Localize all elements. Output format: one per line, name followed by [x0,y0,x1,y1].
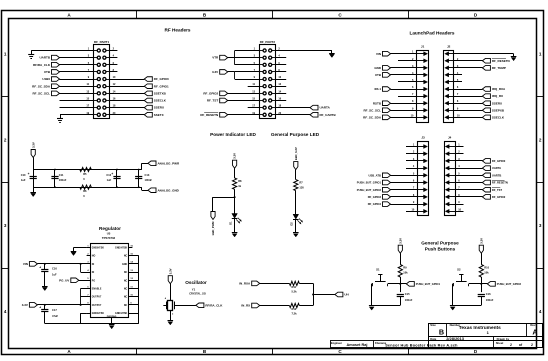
svg-text:Texas Instruments: Texas Instruments [459,325,501,331]
svg-text:IRQ_RX: IRQ_RX [492,94,503,98]
wire J3 pin 6 [391,182,418,184]
svg-text:2: 2 [531,343,533,347]
pin U5 left PG [87,280,91,282]
svg-text:SSERX: SSERX [154,106,164,110]
wire PG_UV to U5 [79,280,91,282]
wire bottom rail S1 [372,305,401,307]
svg-text:General Purpose LED: General Purpose LED [271,132,320,137]
svg-text:3: 3 [4,223,7,228]
wire LED to ground [234,219,236,233]
pin U5 right NC [128,288,138,290]
svg-text:3.3V: 3.3V [212,70,218,74]
net flag RF_TST [482,187,490,192]
wire bottom rail S2 [453,305,482,307]
net flag VIN [383,51,391,56]
wire 3.3V to R10 [481,253,483,264]
net flag RF/RA_CLK [52,62,60,67]
pin U5 left ENABLE [87,288,91,290]
wire J2 pin 1 to ground [454,53,514,55]
wire LED to ground [295,220,297,233]
svg-text:100nF: 100nF [59,178,67,182]
title block engineer row [331,341,544,348]
svg-text:RF_PART2: RF_PART2 [260,40,276,44]
wire J4 pin 4 [455,168,482,170]
net flag PUSH_BUT_GPIO1 [400,283,406,285]
net flag VIN [29,262,37,267]
LED D2 [293,214,299,219]
net flag 3.3V [220,70,228,75]
wire J3 pin 5 [391,175,418,177]
net flag PG_UV [71,278,79,283]
net flag RF_TST [220,98,228,103]
svg-text:LED_3.3V: LED_3.3V [294,147,298,160]
svg-text:PUSH_BUT_GPIO2: PUSH_BUT_GPIO2 [357,188,382,192]
svg-text:ANALOG_PWR: ANALOG_PWR [158,161,181,165]
wire J1 pin 4 [391,74,417,76]
svg-text:GND/HTSK: GND/HTSK [115,313,127,315]
wire J1 pin 5 [398,81,417,83]
svg-text:OUTPUT: OUTPUT [92,297,102,299]
wire to ANALOG_PWR [141,163,143,169]
wire RF_PART1 pin 5 [60,64,94,66]
wire J3 pin 3 [406,160,418,162]
wire RF_PART1 pin 14 [109,93,144,95]
wire VIN to U5 IN pins [37,263,90,265]
ground (D1) [232,232,238,234]
wire RF_PART2 pin 8 [275,71,286,73]
wire J1 pin 8 [391,103,417,105]
svg-text:10k: 10k [484,271,489,275]
svg-text:RSTB: RSTB [373,101,382,105]
svg-text:RF/RA_CLK: RF/RA_CLK [205,303,223,307]
wire J3 pin 8 [391,196,418,198]
svg-text:+: + [39,266,41,270]
ground (RF_PART2 pin 2) [331,51,333,54]
net flag UARTA [482,166,490,171]
svg-text:Y1: Y1 [192,288,196,292]
wire RF_PART1 pin 6 [109,64,117,66]
wire RF_PART2 pin 18 [275,107,310,109]
svg-text:1: 1 [4,52,7,57]
wire J2 pin 8 [454,103,483,105]
net flag UH [335,292,343,297]
svg-text:NC: NC [124,272,128,274]
svg-text:USB_ATB: USB_ATB [369,173,382,177]
net flag IN_RXA [252,281,260,286]
svg-text:NC: NC [124,297,128,299]
svg-text:2: 2 [510,343,512,347]
svg-text:R6: R6 [83,189,87,193]
wire ground loop under U5 [45,323,139,325]
net flag IRL1 [383,87,391,92]
net flag RF_GPIO4 [383,202,391,207]
svg-text:IRL1: IRL1 [374,87,381,91]
svg-text:NC: NC [124,289,128,291]
svg-text:GND: GND [374,66,382,70]
net flag UTB [52,70,60,75]
svg-text:PG: PG [92,280,96,282]
svg-text:R10: R10 [484,266,489,270]
svg-text:RF_UARTB: RF_UARTB [320,113,337,117]
wire bracket pins 7-9 (3.3V) [234,72,236,79]
svg-text:1: 1 [539,52,542,57]
ground (U5 pin 1) [74,247,87,249]
svg-text:UTB: UTB [44,70,51,74]
svg-text:PWRPAD: PWRPAD [107,315,117,318]
wire RF_PART1 pin 4 [109,57,117,59]
net flag IRQ_RXA [482,87,490,92]
svg-text:RF_GPIO1: RF_GPIO1 [154,84,169,88]
svg-text:UARTB: UARTB [492,173,501,177]
pin U5 right NC [128,280,138,282]
pin U5 right NC [128,304,138,306]
wire RF_PART1 pin 11 [60,86,94,88]
wire to LED_PWR tap [213,197,235,199]
net flag LED_PWR [211,212,215,220]
net flag RF_GPIO1 [144,84,152,89]
svg-text:RF_PART1: RF_PART1 [94,40,110,44]
wire RF_PART2 pin 16 [275,100,286,102]
connector J1 [417,51,429,123]
svg-text:C12: C12 [106,173,111,177]
svg-text:Engineer: Engineer [331,341,342,345]
net flag ANALOG_GND [148,188,156,193]
svg-text:Power Indicator LED: Power Indicator LED [210,132,256,137]
wire bracket pins 1-5 (VTR) [234,51,236,65]
svg-text:LaunchPad Headers: LaunchPad Headers [409,30,454,35]
svg-text:R8: R8 [238,179,242,183]
svg-text:RF_RESETN: RF_RESETN [492,59,510,63]
svg-text:3.3V: 3.3V [479,238,483,244]
wire RF_PART1 pin 10 [109,79,144,81]
svg-text:NC: NC [124,256,128,258]
svg-text:NC: NC [124,280,128,282]
power flag 3.3V (S2) [479,245,483,253]
wire J2 pin 4 [454,74,462,76]
wire J2 pin 10 [454,117,483,119]
svg-text:100nF: 100nF [405,298,413,302]
svg-text:UARTA: UARTA [492,166,501,170]
capacitor C15 [397,294,404,296]
svg-text:NC: NC [124,305,128,307]
net flag RF_GPIO0 [482,159,490,164]
wire R11 to junction [299,283,313,285]
svg-text:General Purpose: General Purpose [421,240,459,245]
wire RF_PART2 pin 14 [275,93,286,95]
net flag IRQ_RX [482,94,490,99]
pin U5 left IN [87,263,91,265]
svg-text:UARTA: UARTA [320,106,331,110]
svg-text:1uF: 1uF [52,273,57,277]
svg-text:A: A [532,327,537,336]
wire J4 pin 1 [455,146,463,148]
svg-text:Oscillator: Oscillator [185,280,207,285]
ground (S2) [450,305,456,307]
net flag RF_SC_SDA [52,84,60,89]
pin U5 left IN [87,272,91,274]
svg-text:GND/HTSK: GND/HTSK [92,248,104,250]
svg-text:GND/HTSK: GND/HTSK [92,313,104,315]
svg-text:Sheet: Sheet [496,341,504,345]
wire output bracket [37,304,90,306]
svg-text:C11: C11 [59,173,64,177]
svg-text:4: 4 [4,309,7,314]
net flag PUSH_BUT_GPIO2 [383,187,391,192]
svg-text:3.3V: 3.3V [22,303,28,307]
net flag RF_TEMP [482,66,490,71]
svg-text:PUSH_BUT_GPIO2: PUSH_BUT_GPIO2 [497,282,522,286]
wire RF_PART2 pin 12 [275,86,286,88]
svg-text:RF_TEMP: RF_TEMP [492,66,506,70]
svg-text:PUSH_BUT_GPIO1: PUSH_BUT_GPIO1 [416,282,441,286]
svg-text:Push Buttons: Push Buttons [425,246,456,251]
svg-text:RF_GPIO0: RF_GPIO0 [154,77,169,81]
svg-text:R5: R5 [83,172,87,176]
net flag RSTB [383,101,391,106]
wire right pin bus of U5 [138,256,140,324]
svg-text:Sensor Hub Booster Pack Rev A.: Sensor Hub Booster Pack Rev A.sch [385,343,458,347]
wire RF_PART1 pin 2 [109,50,117,52]
svg-text:UH: UH [344,293,348,297]
wire J2 pin 5 [454,81,462,83]
connector RF_PART1 [94,45,110,119]
svg-text:LED_PWR: LED_PWR [211,222,215,236]
svg-text:GND/HTSK: GND/HTSK [115,248,127,250]
svg-text:RF_SC_SCL: RF_SC_SCL [32,91,50,95]
capacitor C16 [478,294,485,296]
net flag U1B0 [52,77,60,82]
crystal Y1 [168,301,173,311]
wire J1 pin 10 [391,117,417,119]
wire J4 pin 2 [455,153,463,155]
svg-text:SSETXB: SSETXB [154,91,167,95]
net flag RF_SC_SDA [383,115,391,120]
wire RF_PART1 pin 17 [60,107,94,109]
wire J4 pin 6 [455,182,482,184]
resistor R5 [80,167,92,171]
connector J4 [445,142,456,216]
wire R9 to junction [400,277,402,292]
svg-text:RF_GPIO2: RF_GPIO2 [203,91,218,95]
svg-text:UARTB: UARTB [40,56,51,60]
wire J1 pin 1 [391,53,417,55]
svg-text:RF_GPIO0: RF_GPIO0 [492,159,506,163]
pin U5 left OUTPUT [87,296,91,298]
wire RF_PART1 pin 7 [60,71,94,73]
resistor R11 [289,281,299,285]
wire 3.3V to R9 [400,253,402,264]
power flag LED_3.3V (GP LED) [294,162,298,170]
svg-text:RF_GPIO3: RF_GPIO3 [368,195,382,199]
wire J2 pin 3 [454,67,483,69]
resistor R10 [479,265,483,278]
ground (RF_PART1 pin 19) [60,115,62,118]
svg-text:2: 2 [4,137,7,142]
svg-text:Regulator: Regulator [99,226,121,231]
svg-text:C15: C15 [405,292,410,296]
svg-text:+: + [111,172,113,176]
svg-text:R9: R9 [403,266,407,270]
wire R12 to junction [299,305,313,307]
svg-text:SSETX: SSETX [154,113,164,117]
svg-text:5.2k: 5.2k [292,290,298,294]
pin U5 left OUTPUT [87,304,91,306]
wire J3 pin 4 [406,168,418,170]
pin U5 right GND/HTSK [128,313,138,315]
net flag ANALOG_PWR [148,161,156,166]
wire S2 left leg [453,283,454,285]
net flag RF/RA_CLK [196,303,204,308]
svg-text:+: + [39,306,41,310]
wire J1 pin 6 [391,89,417,91]
net flag PUSH_BUT_GPIO1 [383,180,391,185]
svg-text:CRYSTAL_SO: CRYSTAL_SO [189,293,206,296]
wire analog ground rail [33,187,142,189]
svg-text:J3: J3 [421,136,425,140]
svg-text:SSEPXB: SSEPXB [492,108,505,112]
wire RF_PART1 pin 16 [109,100,144,102]
wire J1 pin 2 [398,60,417,62]
svg-text:PG_UV: PG_UV [59,278,69,282]
svg-text:SSERX: SSERX [492,101,502,105]
ground (Y1) [168,320,174,322]
wire RF_PART1 pin 3 [60,57,94,59]
wire to ANALOG_GND [141,187,143,190]
connector J3 [418,142,429,216]
connector RF_PART2 [260,45,276,119]
svg-text:SSECLK: SSECLK [492,115,505,119]
svg-text:2: 2 [539,137,542,142]
ground (C16) [42,286,48,288]
wire J2 pin 2 [454,60,483,62]
wire J4 pin 3 [455,160,482,162]
svg-text:C13: C13 [145,173,150,177]
capacitor C12 [116,170,118,188]
capacitor C13 [138,170,140,188]
svg-text:GND: GND [122,264,127,266]
svg-text:C16: C16 [486,292,491,296]
pin U5 left NO [87,255,91,257]
svg-text:J1: J1 [421,44,425,48]
ground (S1) [369,305,375,307]
wire junction vertical [313,283,315,305]
svg-text:10k: 10k [403,271,408,275]
net flag SSECLK [144,98,152,103]
wire to R7 [295,170,297,180]
net flag RF_RESETN [220,112,228,117]
svg-text:UTB: UTB [375,73,382,77]
pin U5 left GND/HTSK [87,313,91,315]
net flag 3.3V (U5 output) [29,303,37,308]
svg-text:3.3V: 3.3V [168,268,172,274]
net flag UTB [383,73,391,78]
wire RF_PART2 pin 10 [275,79,286,81]
svg-text:R7: R7 [299,181,303,185]
resistor R12 [289,303,299,307]
net flag RF_GPIO0 [144,77,152,82]
svg-text:OUTPUT: OUTPUT [92,305,102,307]
pin U5 right NC [128,272,138,274]
ground (D2) [293,232,299,234]
power flag 3.3V (S1) [398,245,402,253]
net flag GND [383,66,391,71]
resistor R6 [80,185,92,189]
svg-text:R12: R12 [292,307,297,311]
net flag RF_SC_SCL [52,91,60,96]
net flag UARTB [52,55,60,60]
svg-text:IN: IN [92,272,95,274]
wire RF_PART1 pin 1 [31,50,93,52]
net flag RF_RESETN [482,180,490,185]
wire J4 pin 9 [455,204,463,206]
wire J4 pin 8 [455,196,482,198]
wire R10 to junction [481,277,483,292]
net flag SSETXB [144,91,152,96]
wire S2 right leg [469,283,482,285]
net flag PUSH_BUT_GPIO2 [481,283,487,285]
svg-text:U1B0: U1B0 [42,77,50,81]
svg-text:Amoset Raj: Amoset Raj [347,343,368,347]
pin U5 right NC [128,296,138,298]
resistor R7 [294,180,298,191]
svg-text:J2: J2 [447,44,451,48]
svg-text:100nF: 100nF [145,178,153,182]
wire J1 pin 3 [391,67,417,69]
svg-text:RF_SC_SDA: RF_SC_SDA [32,84,51,88]
wire J2 pin 9 [454,110,483,112]
svg-text:1uF: 1uF [107,178,112,182]
wire R7 to LED [295,191,297,215]
pin U5 right NC [128,255,138,257]
resistor R9 [398,265,402,278]
wire crystal to ground [170,310,172,320]
capacitor C11 [54,170,56,188]
svg-text:3.3V: 3.3V [233,153,237,159]
power flag 3.3V (oscillator) [168,276,172,284]
svg-text:S1: S1 [376,268,380,272]
net flag RF_GPIO3 [383,195,391,200]
net flag RF_SC_SCL [383,108,391,113]
wire J1 pin 9 [391,110,417,112]
wire J3 pin 2 [406,153,418,155]
svg-text:TPS73733: TPS73733 [102,236,116,240]
power flag 3.3V (power LED) [233,160,237,168]
net flag RF_GPIO2 [482,195,490,200]
svg-text:130: 130 [299,186,304,190]
capacitor C10 [30,176,37,178]
svg-text:RF_GPIO2: RF_GPIO2 [492,195,506,199]
net flag RF_UARTB [310,112,318,117]
wire RF_PART2 pin 6 [275,64,286,66]
svg-text:RF_SC_SDA: RF_SC_SDA [363,115,382,119]
svg-text:RF_TST: RF_TST [207,99,219,103]
svg-text:VIN: VIN [23,262,28,266]
wire J3 pin 10 [406,211,418,213]
wire RF_PART1 pin 15 [60,100,94,102]
svg-text:C10: C10 [21,173,26,177]
svg-text:3.3V: 3.3V [398,238,402,244]
wire J3 pin 7 [391,189,418,191]
svg-text:IRQ_RXA: IRQ_RXA [492,87,506,91]
net flag USB_ATB [383,173,391,178]
svg-text:100nF: 100nF [486,298,494,302]
wire junction to UH [313,294,335,296]
wire RF_PART1 pin 19 [60,114,94,116]
net flag VTR [220,55,228,60]
net flag SSECLK [482,115,490,120]
svg-text:PUSH_BUT_GPIO1: PUSH_BUT_GPIO1 [357,181,382,185]
wire J4 pin 5 [455,175,482,177]
